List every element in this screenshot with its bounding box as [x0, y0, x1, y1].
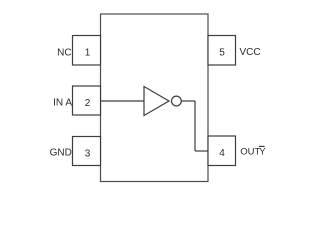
svg-text:Y: Y	[259, 147, 266, 158]
pin 5 box	[208, 36, 236, 66]
wire: horizontal into pin 4	[195, 150, 208, 152]
pin 3 box	[73, 137, 101, 166]
svg-text:4: 4	[219, 148, 225, 159]
inverter output bubble	[172, 96, 182, 106]
svg-text:IN A: IN A	[53, 98, 72, 109]
wire: vertical down to pin 4 level	[194, 101, 196, 151]
wire: pin 2 to inverter input	[101, 100, 145, 102]
inverter U1 triangle	[144, 87, 169, 116]
svg-text:3: 3	[85, 149, 91, 160]
overline over Y of OUT Y	[259, 145, 265, 147]
svg-text:1: 1	[85, 48, 91, 59]
IC body U1	[101, 14, 209, 182]
svg-text:VCC: VCC	[240, 47, 261, 58]
svg-text:NC: NC	[57, 48, 71, 59]
pin 2 box	[73, 86, 101, 115]
svg-text:2: 2	[85, 98, 91, 109]
pin 1 box	[73, 36, 101, 66]
svg-text:GND: GND	[50, 148, 72, 159]
wire: bubble to corner	[181, 100, 195, 102]
svg-text:5: 5	[219, 48, 225, 59]
svg-text:OUT: OUT	[240, 147, 260, 158]
pin 4 box	[208, 136, 236, 166]
